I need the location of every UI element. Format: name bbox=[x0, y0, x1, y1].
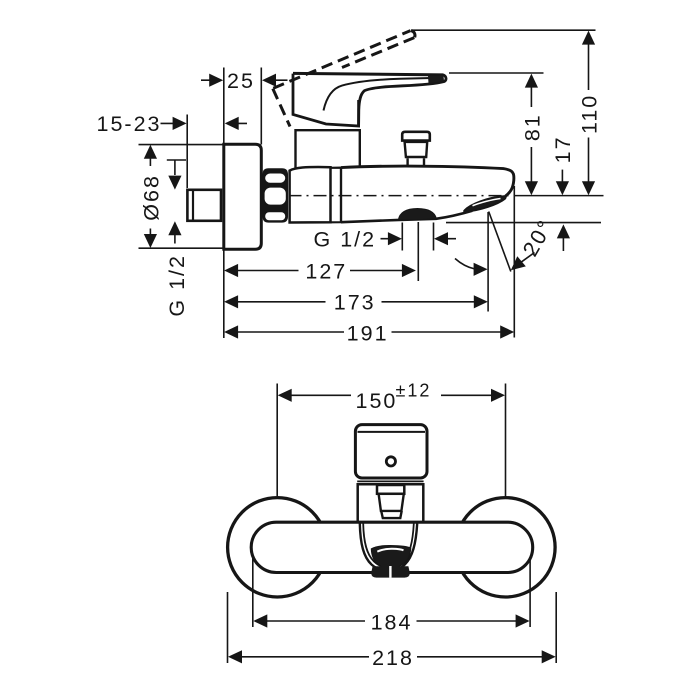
svg-text:110: 110 bbox=[577, 94, 601, 134]
raised handle (dashed) underside bbox=[342, 38, 414, 68]
collar bbox=[358, 484, 424, 522]
arrow 15-23 right bbox=[225, 117, 239, 130]
cartridge column bbox=[296, 130, 360, 167]
supply pipe G1/2 bbox=[187, 190, 221, 221]
bottom outlet dome (filled) bbox=[398, 209, 436, 221]
dim 191 line bbox=[237, 331, 501, 333]
arrow 25 right bbox=[262, 74, 276, 87]
svg-text:81: 81 bbox=[520, 113, 544, 141]
dim 17 line bbox=[561, 170, 563, 183]
dim 25 bbox=[201, 79, 288, 81]
left escutcheon circle bbox=[228, 498, 327, 597]
dim G1/2 port bbox=[381, 238, 457, 240]
union body bbox=[290, 167, 331, 222]
svg-text:G 1/2: G 1/2 bbox=[165, 254, 189, 317]
arrow O68 top bbox=[144, 145, 157, 159]
arrow 218 left bbox=[228, 650, 242, 663]
lever tip thickening bbox=[428, 76, 444, 84]
dim G1/2 left bbox=[167, 160, 186, 244]
20deg up arrow tail bbox=[562, 237, 564, 251]
union nut slots bbox=[265, 174, 286, 221]
diverter port body bbox=[405, 142, 428, 157]
arrow 110 top bbox=[582, 31, 595, 45]
base band bbox=[357, 480, 423, 482]
20deg leader bbox=[519, 253, 535, 264]
aerator slit bbox=[473, 199, 501, 206]
aerator crescent (filled) bbox=[464, 196, 506, 211]
20deg slanted line bbox=[489, 212, 511, 272]
dim 150 line bbox=[291, 394, 492, 396]
lever handle top edge bbox=[293, 73, 444, 75]
dim 173 line bbox=[237, 301, 475, 303]
knob dot bbox=[386, 457, 395, 466]
arrow 191 right bbox=[500, 325, 514, 338]
arrow O68 bottom bbox=[144, 234, 157, 248]
joint sleeve bbox=[331, 168, 342, 223]
escutcheon bbox=[224, 144, 261, 249]
arrow 218 right bbox=[542, 650, 556, 663]
arrow 150 left bbox=[278, 389, 292, 402]
arrow G12 top bbox=[168, 176, 181, 190]
port extension lines bbox=[402, 222, 433, 281]
svg-text:150: 150 bbox=[356, 389, 398, 413]
spout mouth (filled) bbox=[371, 545, 411, 568]
svg-text:17: 17 bbox=[551, 135, 575, 163]
union nut bbox=[263, 168, 289, 222]
svg-text:218: 218 bbox=[372, 646, 414, 670]
spout tip extension line bbox=[513, 186, 515, 338]
arrow G12 port right bbox=[434, 232, 448, 245]
dim O68 extension lines bbox=[139, 145, 224, 249]
arrowheads bbox=[144, 31, 595, 664]
arrow 127 left bbox=[224, 264, 238, 277]
svg-text:184: 184 bbox=[371, 611, 413, 635]
arrow 15-23 left bbox=[173, 117, 187, 130]
arrow 17 bottom bbox=[556, 181, 569, 195]
arrow 173 left bbox=[224, 295, 238, 308]
arrow 81 bottom bbox=[525, 181, 538, 195]
svg-text:173: 173 bbox=[334, 290, 376, 314]
20deg horizontal reference line bbox=[446, 222, 601, 224]
arrow 184 left bbox=[253, 614, 267, 627]
arrow 25 left bbox=[209, 74, 223, 87]
wall face line bbox=[223, 68, 225, 339]
body capsule bbox=[251, 522, 533, 572]
faucet body top edge + spout nose bbox=[341, 166, 514, 196]
arrow G12 bottom bbox=[168, 221, 181, 235]
aerator extension line bbox=[487, 212, 489, 312]
raised handle (dashed) tip bbox=[411, 31, 415, 38]
dim 127 line bbox=[237, 270, 403, 272]
curved leader to aerator line bbox=[455, 259, 475, 269]
dim 184 line bbox=[267, 620, 517, 622]
lever crease line bbox=[324, 78, 438, 111]
spout mouth highlight bbox=[377, 549, 403, 552]
arrow 184 right bbox=[516, 614, 530, 627]
svg-text:G 1/2: G 1/2 bbox=[314, 228, 377, 252]
cartridge box1 bbox=[377, 485, 404, 494]
raised handle (dashed) top edge bbox=[273, 31, 410, 89]
circle edge extension lines bbox=[228, 592, 557, 663]
capsule end extension lines bbox=[253, 557, 530, 627]
spout bell outer bbox=[360, 524, 417, 572]
dim O68 line bbox=[149, 157, 151, 237]
svg-text:15-23: 15-23 bbox=[97, 112, 162, 136]
arrow 20deg slant bbox=[511, 256, 526, 270]
right escutcheon circle bbox=[456, 498, 555, 597]
diverter port flange bbox=[402, 132, 430, 141]
svg-text:25: 25 bbox=[227, 69, 255, 93]
cartridge box2 bbox=[379, 494, 404, 511]
faucet body bottom edge bbox=[341, 211, 472, 223]
centerline solid extension bbox=[514, 195, 604, 197]
dim 150 extension lines bbox=[277, 384, 505, 497]
svg-text:±12: ±12 bbox=[396, 381, 432, 401]
arrow 81 top bbox=[525, 74, 538, 88]
arrow 191 left bbox=[224, 325, 238, 338]
arrow 150 right bbox=[491, 389, 505, 402]
dim 218 line bbox=[242, 656, 543, 658]
cartridge box3 bbox=[381, 511, 402, 518]
handle knob front bbox=[355, 425, 427, 478]
dim 81 line bbox=[530, 87, 532, 183]
dim 15-23 bbox=[161, 122, 248, 124]
dim 110 line bbox=[588, 43, 590, 183]
diverter port neck bbox=[408, 158, 424, 167]
arrow 127 right bbox=[402, 264, 416, 277]
raised handle (dashed) left edge bbox=[273, 89, 290, 127]
supply pipe embed extension line bbox=[186, 115, 188, 189]
arrow 20deg up bbox=[557, 224, 570, 238]
lever handle underside/neck bbox=[359, 75, 446, 126]
svg-text:127: 127 bbox=[305, 260, 347, 284]
dim 81 extension line bbox=[449, 72, 544, 74]
dim 110 extension line bbox=[412, 29, 596, 31]
svg-text:Ø68: Ø68 bbox=[140, 174, 164, 221]
spout bell inner bbox=[363, 524, 414, 568]
centerline bbox=[289, 195, 515, 197]
arrow 110 bottom bbox=[582, 181, 595, 195]
escutcheon front extension line bbox=[260, 68, 262, 145]
lever base bbox=[293, 74, 359, 126]
svg-text:191: 191 bbox=[347, 322, 389, 346]
arrow G12 port left bbox=[388, 232, 402, 245]
arrow 173 right bbox=[474, 295, 488, 308]
arrow curved leader bbox=[474, 263, 488, 276]
spout chin bbox=[371, 566, 410, 577]
